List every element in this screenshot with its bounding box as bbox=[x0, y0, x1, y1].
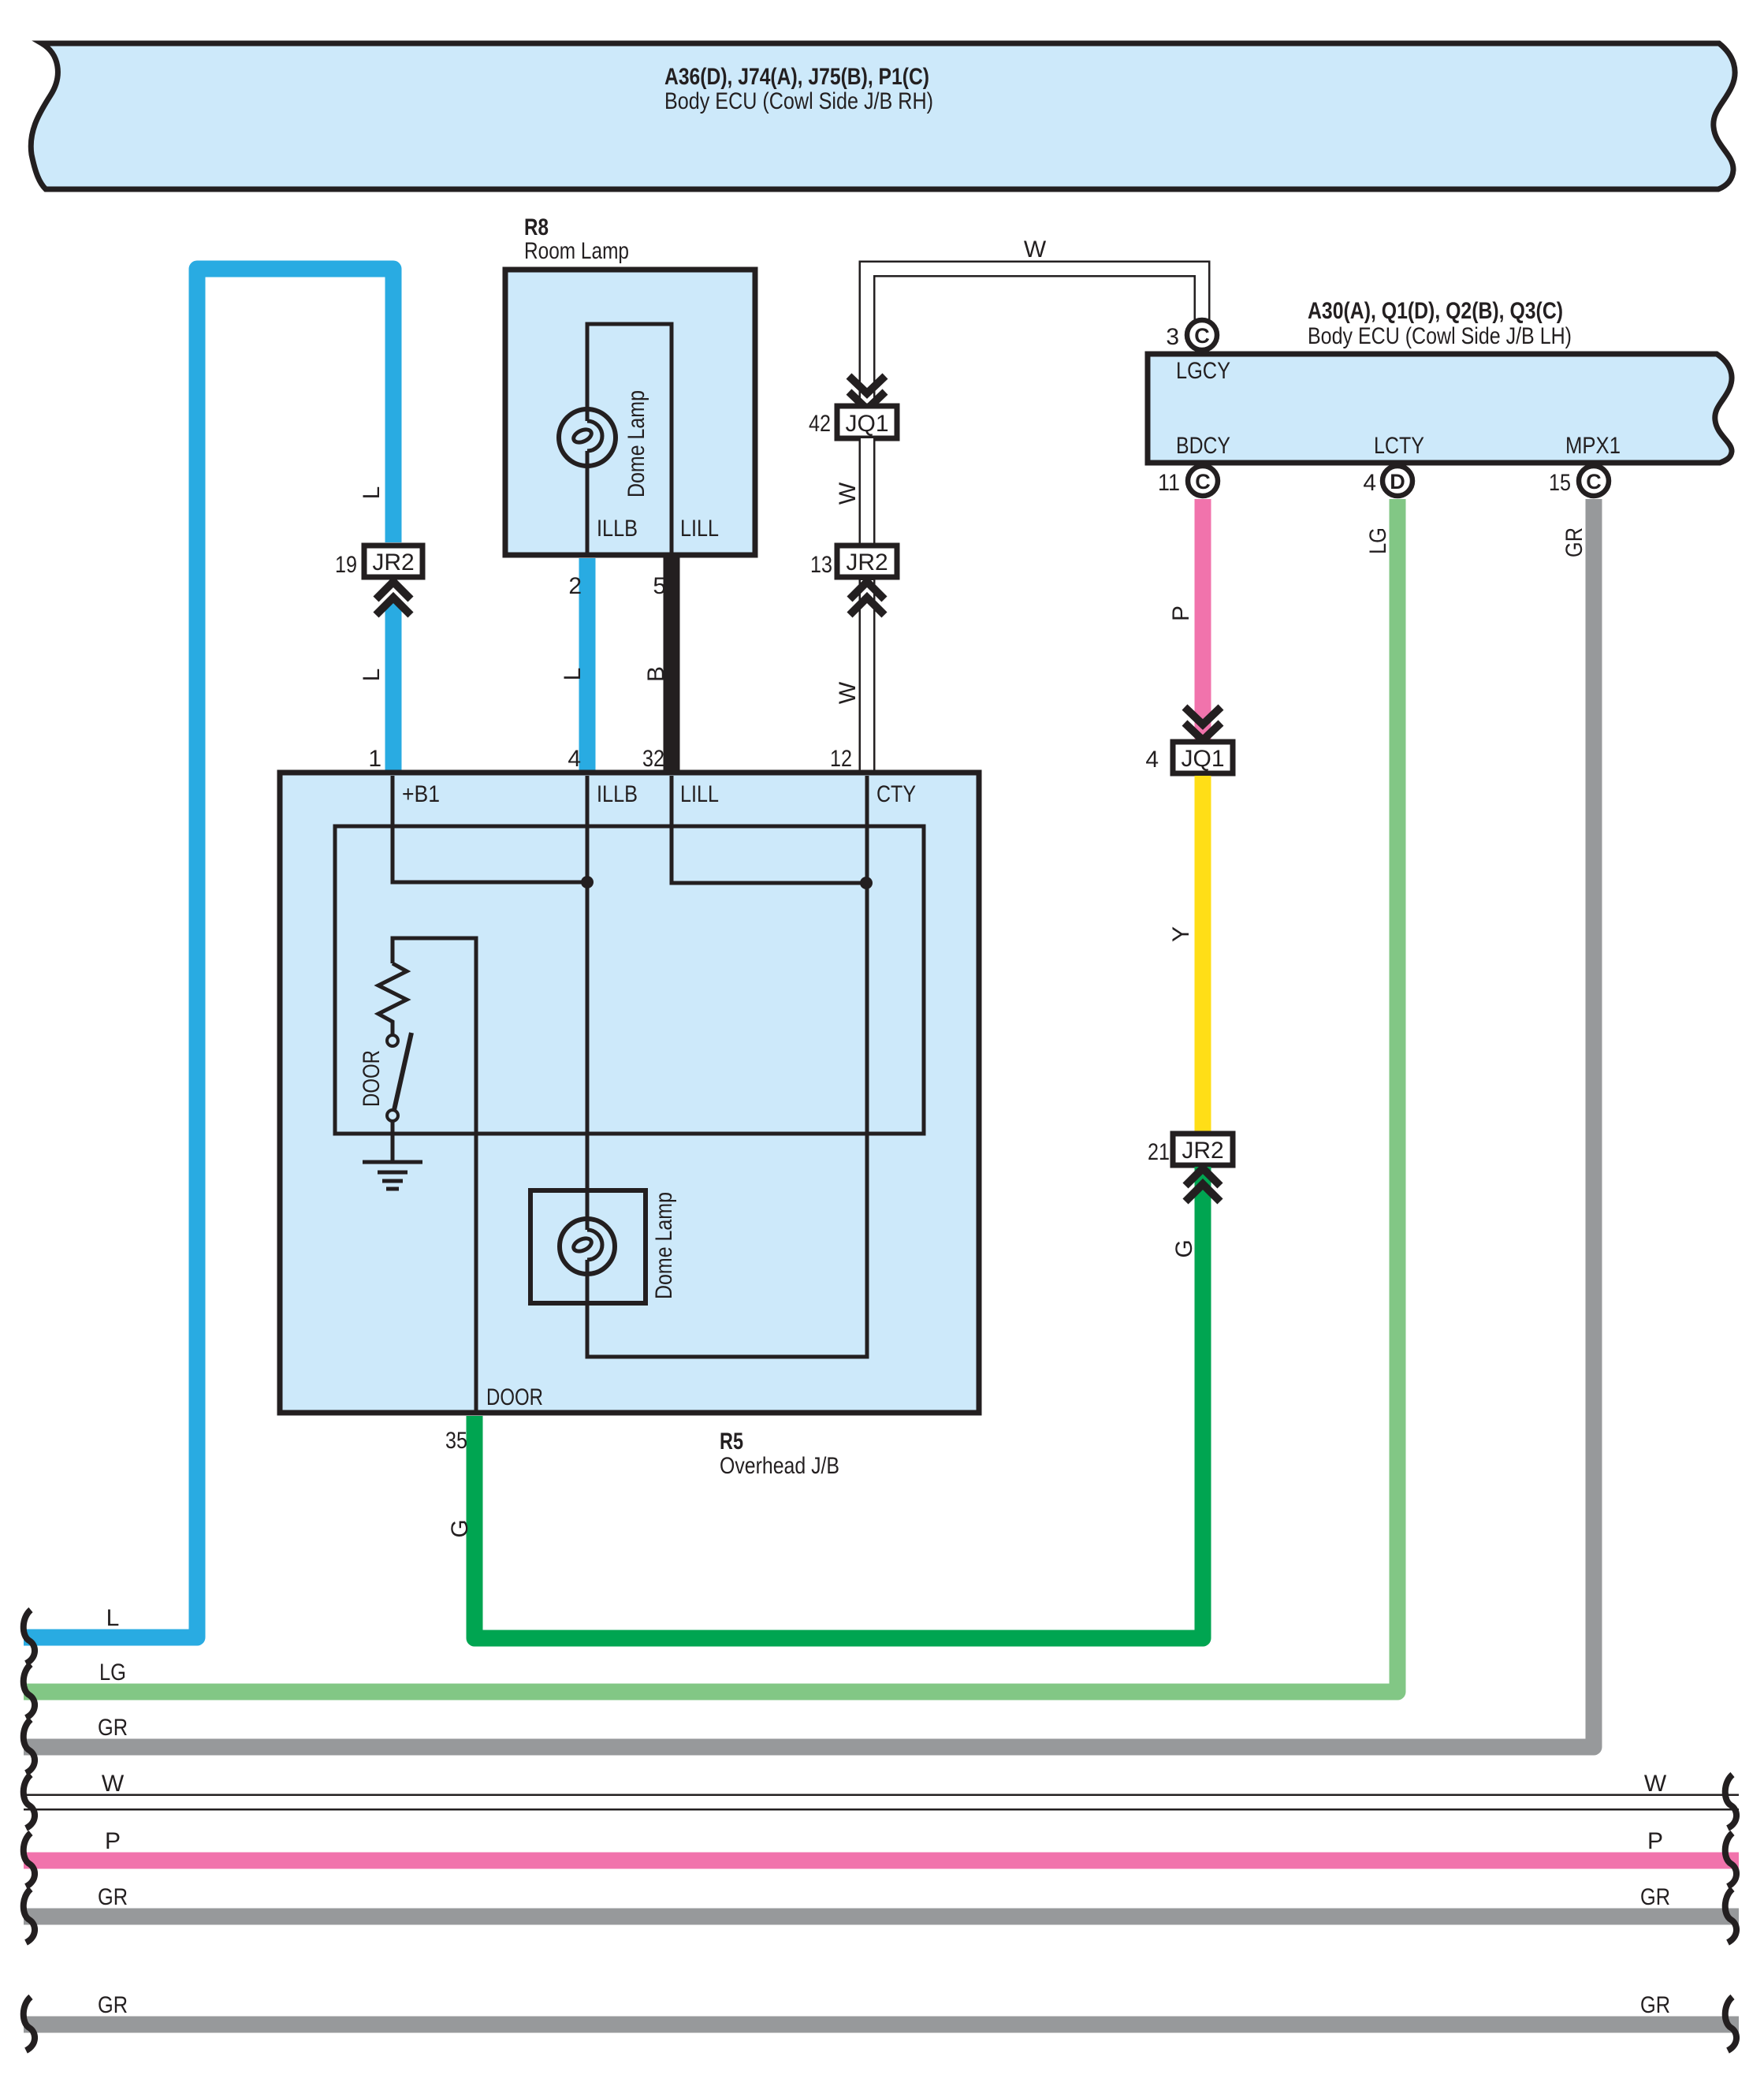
R5 internal ILLB line upper bbox=[586, 776, 590, 1215]
svg-text:W: W bbox=[835, 482, 861, 505]
svg-text:LGCY: LGCY bbox=[1176, 358, 1230, 384]
svg-text:LG: LG bbox=[1365, 527, 1391, 554]
bottom wire GR row 3 bbox=[24, 2017, 1739, 2033]
svg-text:P: P bbox=[1647, 1828, 1663, 1854]
svg-text:C: C bbox=[1195, 470, 1211, 494]
squiggle GR3 right bbox=[1725, 1997, 1736, 2051]
svg-text:JR2: JR2 bbox=[1182, 1138, 1223, 1164]
ECU banner LH (right) bbox=[1148, 298, 1732, 463]
chevrons below JR2 13 bbox=[850, 582, 884, 615]
svg-text:R5: R5 bbox=[720, 1429, 743, 1455]
resistor bbox=[378, 963, 407, 1035]
svg-text:ILLB: ILLB bbox=[597, 516, 638, 542]
connector JR2 pin 13 bbox=[810, 546, 897, 578]
R5 Overhead J/B box bbox=[280, 773, 979, 1479]
svg-text:L: L bbox=[560, 668, 586, 681]
svg-text:L: L bbox=[359, 486, 385, 500]
bottom wire P row bbox=[24, 1853, 1739, 1869]
svg-text:DOOR: DOOR bbox=[359, 1050, 385, 1107]
svg-text:JR2: JR2 bbox=[846, 549, 888, 576]
svg-text:5: 5 bbox=[653, 573, 666, 599]
R5 internal +B1 branch bbox=[393, 776, 587, 882]
svg-text:CTY: CTY bbox=[876, 781, 916, 807]
svg-text:D: D bbox=[1390, 470, 1405, 494]
svg-text:3: 3 bbox=[1166, 324, 1179, 350]
svg-text:JR2: JR2 bbox=[372, 549, 414, 576]
svg-text:JQ1: JQ1 bbox=[1181, 746, 1224, 772]
svg-text:C: C bbox=[1586, 470, 1602, 494]
R8 Room Lamp box bbox=[505, 214, 755, 555]
svg-text:4: 4 bbox=[1145, 747, 1159, 773]
svg-text:JQ1: JQ1 bbox=[845, 411, 888, 437]
chevrons below JR2 21 bbox=[1185, 1168, 1220, 1201]
pin 15 C circle bbox=[1549, 466, 1609, 496]
svg-text:B: B bbox=[643, 666, 669, 682]
squiggle P left bbox=[24, 1833, 35, 1887]
squiggle GR left bbox=[24, 1719, 35, 1773]
squiggle GR2 right bbox=[1725, 1889, 1736, 1943]
wire L R8 pin2 to R5 pin4 bbox=[579, 558, 596, 777]
svg-text:42: 42 bbox=[809, 411, 831, 437]
svg-text:MPX1: MPX1 bbox=[1565, 433, 1621, 459]
bottom wire GR row 2 bbox=[24, 1909, 1739, 1925]
svg-text:LG: LG bbox=[99, 1659, 126, 1686]
svg-text:ILLB: ILLB bbox=[597, 781, 638, 807]
svg-text:1: 1 bbox=[368, 746, 381, 772]
svg-text:+B1: +B1 bbox=[402, 781, 440, 807]
svg-text:Body ECU (Cowl Side J/B LH): Body ECU (Cowl Side J/B LH) bbox=[1308, 323, 1572, 349]
squiggle GR3 left bbox=[24, 1997, 35, 2051]
svg-text:A30(A), Q1(D), Q2(B), Q3(C): A30(A), Q1(D), Q2(B), Q3(C) bbox=[1308, 298, 1563, 324]
wire L below JR2 19 bbox=[385, 601, 402, 777]
svg-text:4: 4 bbox=[568, 746, 581, 772]
R5 door switch feed bbox=[393, 938, 476, 1413]
svg-text:Room Lamp: Room Lamp bbox=[524, 238, 629, 264]
svg-text:W: W bbox=[1644, 1771, 1667, 1797]
chevrons below JR2 19 bbox=[376, 582, 411, 615]
svg-text:LILL: LILL bbox=[680, 516, 719, 542]
squiggle W right bbox=[1725, 1775, 1736, 1828]
dome lamp R8 bbox=[559, 390, 649, 497]
svg-text:W: W bbox=[102, 1771, 125, 1797]
wire L main loop bbox=[24, 269, 393, 1637]
svg-text:13: 13 bbox=[810, 552, 832, 578]
svg-text:G: G bbox=[1171, 1239, 1197, 1257]
svg-text:BDCY: BDCY bbox=[1176, 433, 1230, 459]
svg-text:Dome Lamp: Dome Lamp bbox=[651, 1192, 677, 1299]
svg-text:Overhead J/B: Overhead J/B bbox=[720, 1453, 839, 1479]
R5 inner frame bbox=[335, 826, 924, 1134]
svg-text:LILL: LILL bbox=[680, 781, 719, 807]
wire W JR2 to R5 pin 12 bbox=[859, 579, 876, 777]
svg-text:19: 19 bbox=[335, 552, 357, 578]
wire G JR2 21 down, left to R5 pin 35 bbox=[474, 1167, 1203, 1638]
svg-text:11: 11 bbox=[1158, 470, 1180, 496]
svg-text:GR: GR bbox=[1561, 527, 1587, 557]
svg-text:21: 21 bbox=[1148, 1139, 1170, 1165]
svg-text:G: G bbox=[447, 1519, 473, 1537]
wire GR pin15 down and left bbox=[24, 499, 1594, 1747]
R5 dome lamp box bbox=[530, 1190, 646, 1303]
svg-text:L: L bbox=[359, 669, 385, 682]
wire W JQ1 to JR2 bbox=[859, 438, 876, 547]
svg-text:P: P bbox=[105, 1828, 121, 1854]
svg-text:12: 12 bbox=[830, 746, 852, 772]
svg-text:LCTY: LCTY bbox=[1374, 433, 1424, 459]
wire Y JQ1 to JR2 21 bbox=[1195, 776, 1211, 1134]
squiggle W left bbox=[24, 1775, 35, 1828]
junction dot LILL/CTY bbox=[860, 877, 873, 889]
wire B R8 pin5 to R5 pin32 bbox=[664, 557, 680, 777]
wire W top run (casing) bbox=[867, 269, 1202, 408]
svg-text:GR: GR bbox=[98, 1992, 128, 2018]
svg-text:C: C bbox=[1194, 324, 1210, 348]
squiggle GR2 left bbox=[24, 1889, 35, 1943]
ECU banner RH (top) bbox=[31, 43, 1735, 189]
connector JQ1 pin 4 bbox=[1145, 742, 1233, 773]
svg-text:A36(D), J74(A), J75(B), P1(C): A36(D), J74(A), J75(B), P1(C) bbox=[664, 64, 929, 90]
chevrons above JQ1 4 bbox=[1185, 707, 1221, 740]
dome lamp R5 bbox=[560, 1192, 677, 1299]
svg-text:GR: GR bbox=[1640, 1884, 1670, 1910]
squiggle LG left bbox=[24, 1664, 35, 1718]
svg-text:R8: R8 bbox=[524, 214, 549, 240]
svg-text:15: 15 bbox=[1549, 470, 1571, 496]
pin 4 D circle bbox=[1363, 466, 1412, 496]
squiggle L left bbox=[24, 1610, 35, 1663]
chevrons above JQ1 42 bbox=[849, 376, 885, 409]
squiggle P right bbox=[1725, 1833, 1736, 1887]
svg-text:P: P bbox=[1168, 605, 1194, 621]
R8 internal lamp circuit wire bbox=[587, 324, 672, 555]
svg-text:L: L bbox=[106, 1605, 120, 1631]
ground bbox=[363, 1162, 422, 1189]
door switch bbox=[359, 1033, 411, 1121]
wire to ground bbox=[391, 1121, 395, 1161]
connector JQ1 pin 42 bbox=[809, 406, 897, 438]
pin 3 C circle bbox=[1166, 320, 1217, 350]
R5 internal CTY line and lamp bottom return bbox=[587, 776, 867, 1357]
wire P pin11 to JQ1 4 bbox=[1195, 499, 1211, 742]
connector JR2 pin 19 bbox=[335, 546, 422, 578]
svg-text:DOOR: DOOR bbox=[486, 1384, 543, 1410]
svg-text:32: 32 bbox=[642, 746, 664, 772]
svg-text:35: 35 bbox=[445, 1428, 467, 1454]
svg-text:GR: GR bbox=[98, 1884, 128, 1910]
junction dot +B1/ILLB bbox=[581, 876, 594, 888]
svg-text:Dome Lamp: Dome Lamp bbox=[623, 390, 649, 497]
svg-text:4: 4 bbox=[1363, 470, 1376, 496]
svg-text:GR: GR bbox=[98, 1715, 128, 1741]
svg-text:Body ECU (Cowl Side J/B RH): Body ECU (Cowl Side J/B RH) bbox=[664, 88, 933, 114]
R5 internal LILL branch bbox=[672, 776, 866, 883]
connector JR2 pin 21 bbox=[1148, 1134, 1233, 1165]
wire LG pin4 D down and left bbox=[24, 499, 1397, 1692]
svg-text:Y: Y bbox=[1168, 926, 1194, 942]
svg-text:GR: GR bbox=[1640, 1992, 1670, 2018]
svg-text:2: 2 bbox=[568, 573, 582, 599]
bottom wire W row bbox=[24, 1794, 1739, 1811]
svg-text:W: W bbox=[835, 681, 861, 704]
pin 11 C circle bbox=[1158, 466, 1218, 496]
svg-text:W: W bbox=[1024, 237, 1047, 263]
